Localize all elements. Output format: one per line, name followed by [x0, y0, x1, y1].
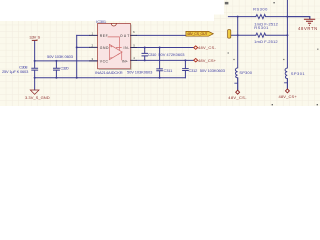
svg-text:50V 472K0603: 50V 472K0603 [158, 52, 185, 57]
svg-text:48V_CS+: 48V_CS+ [198, 58, 217, 63]
svg-text:50V 103K0603: 50V 103K0603 [200, 68, 226, 73]
svg-text:48VRTN: 48VRTN [298, 26, 317, 31]
svg-text:C311: C311 [164, 68, 174, 73]
svg-text:50V 103K0603: 50V 103K0603 [127, 69, 153, 74]
svg-text:48V_CS_OUT: 48V_CS_OUT [187, 32, 208, 36]
svg-text:50V 103K 0603: 50V 103K 0603 [47, 54, 74, 59]
svg-text:SP300: SP300 [239, 70, 252, 75]
svg-text:C312: C312 [189, 68, 199, 73]
svg-text:INA214AIDCKR: INA214AIDCKR [95, 70, 123, 75]
svg-text:RS300: RS300 [253, 6, 268, 11]
svg-text:3.3V_S_GND: 3.3V_S_GND [25, 95, 50, 100]
svg-text:GND: GND [100, 46, 109, 50]
svg-text:IC301: IC301 [96, 19, 107, 24]
svg-text:RS301: RS301 [254, 25, 269, 30]
svg-text:VCC: VCC [100, 59, 109, 63]
svg-text:48V_CS+: 48V_CS+ [279, 94, 298, 99]
svg-text:48V_CS-: 48V_CS- [198, 45, 216, 50]
svg-text:25V 1µF K 0603: 25V 1µF K 0603 [2, 69, 29, 74]
svg-text:48V_CS-: 48V_CS- [228, 95, 247, 100]
svg-text:1mΩ F-2512: 1mΩ F-2512 [254, 39, 278, 44]
svg-text:3.3V_S: 3.3V_S [29, 35, 40, 40]
svg-text:IN-: IN- [124, 46, 130, 50]
svg-text:SP301: SP301 [291, 71, 306, 76]
svg-text:C320: C320 [60, 66, 69, 71]
svg-text:OUT: OUT [120, 34, 129, 38]
svg-text:C310: C310 [148, 52, 157, 57]
svg-text:IN+: IN+ [122, 59, 128, 63]
svg-text:REF: REF [100, 34, 108, 38]
